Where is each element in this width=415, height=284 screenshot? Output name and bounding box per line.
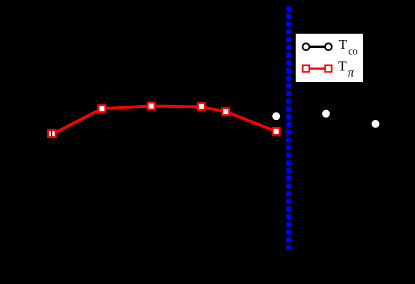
- T_pi marker 4: [198, 103, 205, 110]
- svg-text:π: π: [348, 66, 355, 80]
- svg-text:T: T: [338, 59, 347, 74]
- T_co data points (white filled circles): [272, 112, 280, 120]
- T_pi marker 3: [148, 103, 155, 110]
- svg-text:T: T: [339, 38, 348, 53]
- svg-text:co: co: [348, 47, 357, 58]
- T_pi marker 6: [273, 128, 280, 135]
- legend row 1: T_co: [306, 46, 328, 48]
- T_pi marker 2: [98, 105, 105, 112]
- T_pi marker pair at left (two overlapping squares): [48, 130, 56, 137]
- legend box: [296, 34, 363, 82]
- red T_pi curve: [53, 106, 276, 134]
- blue dashed vertical line (phase boundary): [286, 6, 291, 251]
- legend row 2: T_pi: [306, 67, 328, 69]
- T_pi marker 5: [222, 108, 229, 115]
